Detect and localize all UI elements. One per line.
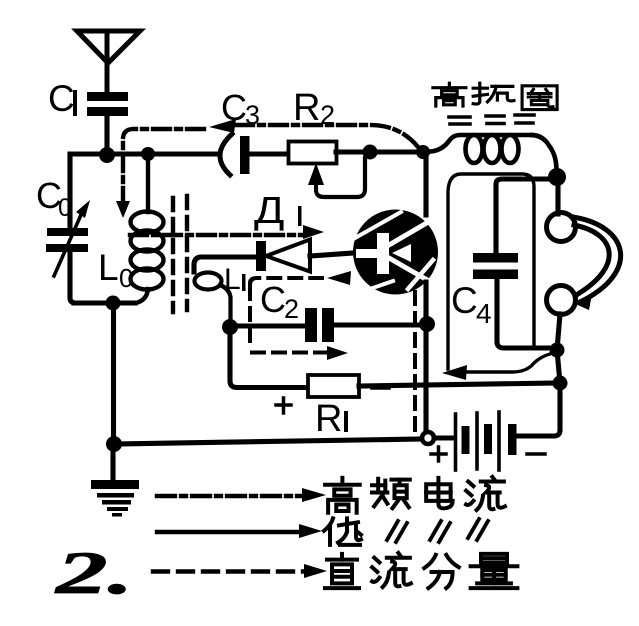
label C0 [36, 175, 72, 222]
C0 variable arrow [54, 208, 84, 276]
collector lead [423, 152, 428, 215]
transformer core [173, 196, 187, 312]
legend dash-dot line [157, 494, 302, 498]
svg-text:C: C [260, 279, 286, 320]
capacitor C3 (curved plate) [220, 134, 232, 175]
wire left branch lower [70, 252, 76, 303]
emitter white diagonal [389, 258, 429, 281]
figure number 2. [54, 540, 134, 606]
wire R1 right to battery minus rail [359, 383, 557, 386]
label R1 [315, 398, 348, 440]
svg-text:R: R [315, 398, 342, 440]
capacitor C1 [87, 92, 128, 116]
svg-text:0: 0 [58, 194, 72, 222]
label L0 [98, 247, 133, 293]
node (ground junction) [106, 436, 122, 452]
collector white diagonal [389, 221, 430, 245]
svg-text:L: L [224, 263, 241, 296]
node (battery minus junction) [553, 376, 568, 391]
svg-text:2: 2 [284, 294, 299, 324]
svg-text:C: C [221, 87, 247, 128]
resistor R1 [308, 375, 359, 397]
node (junction antenna/tank) [99, 147, 115, 163]
minus sign (battery) [527, 452, 545, 456]
label D [254, 188, 302, 231]
wire earpiece to bottom node [557, 314, 560, 350]
diode D (cathode bar) [256, 241, 266, 271]
wire tank bottom [74, 300, 135, 305]
node (L1 bottom) [222, 319, 238, 335]
svg-text:Д: Д [254, 188, 284, 231]
svg-text:2.: 2. [54, 540, 134, 606]
HF dash-dot arrow left (top) [209, 119, 236, 133]
headband arcs [573, 217, 621, 302]
node (collector junction) [416, 145, 430, 159]
svg-text:C: C [48, 78, 75, 119]
wire C2 to emitter node [334, 322, 421, 327]
wire C3 to R2 [249, 152, 289, 154]
capacitor C0 plates [46, 228, 88, 252]
white slash bottom-left [367, 281, 393, 290]
label R2 [293, 87, 335, 130]
+ sign (battery) [431, 447, 446, 461]
wire node to C2 [234, 323, 305, 328]
emitter white arrowhead [392, 244, 411, 262]
inductor L0 [131, 154, 164, 303]
wire down to ground rail [111, 303, 116, 444]
label L1 [224, 263, 246, 296]
R2 wiper wire loop [316, 158, 365, 197]
wire diode to base [310, 253, 353, 256]
base bar (white) [377, 233, 389, 274]
legend text 低 [324, 518, 361, 545]
label C4 [451, 280, 492, 329]
wire node to battery [434, 435, 452, 440]
wire left branch upper [67, 154, 72, 229]
antenna [77, 31, 140, 92]
ground [91, 444, 139, 517]
earpiece top [547, 213, 576, 242]
inductor L1 [195, 273, 222, 290]
base lead white gap [356, 249, 377, 258]
node (emitter / C2 right) [419, 316, 435, 332]
battery + terminal node (open) [422, 432, 434, 444]
capacitor C4 [473, 253, 518, 279]
node (R2 right) [363, 145, 378, 160]
wire top rail [70, 151, 216, 156]
C4 bottom lead [497, 279, 550, 348]
wire L1-node down to R1 [230, 334, 308, 388]
ditto marks [387, 519, 488, 542]
legend text 高频电流 [325, 477, 505, 513]
wire bottom rail to battery + [114, 439, 421, 444]
resistor R2 (potentiometer) [289, 142, 337, 164]
legend text 直流分量 [325, 553, 517, 588]
dashed bottom run [252, 351, 328, 355]
svg-text:2: 2 [320, 100, 335, 130]
node (tank bottom) [106, 296, 121, 311]
emitter lead [423, 282, 428, 434]
dashed vertical near emitter [413, 292, 417, 430]
svg-text:3: 3 [245, 100, 260, 130]
C4 top lead [496, 179, 550, 253]
choke coil [427, 135, 557, 174]
svg-text:C: C [451, 280, 478, 321]
wire C1 to node [104, 116, 109, 154]
wire node to earpiece [555, 177, 560, 214]
label C3 [221, 87, 260, 130]
HF dash-dot arrow (middle, into base) [130, 233, 305, 237]
dashed arrow left (top) [327, 271, 351, 285]
wire down right side [557, 350, 560, 383]
label C2 [260, 279, 299, 324]
legend solid line [157, 530, 302, 534]
choke core dashes [449, 115, 534, 124]
minus sign (R1 right) [372, 386, 389, 390]
label C1 [48, 78, 77, 119]
legend dashed line [153, 569, 305, 573]
svg-text:R: R [293, 87, 320, 129]
battery cells [456, 412, 517, 470]
diode D (triangle) [266, 240, 310, 272]
AF arrow from headphone node [452, 353, 553, 372]
svg-text:L: L [98, 247, 119, 288]
earpiece bottom [547, 286, 576, 315]
label choke 高扼圈 [433, 83, 557, 109]
+ sign (R1 left) [276, 398, 291, 413]
svg-text:0: 0 [119, 263, 133, 293]
white slash bottom-right [408, 260, 433, 289]
wire R2 to node [336, 149, 423, 154]
AF loop rectangle [448, 174, 553, 372]
svg-text:4: 4 [476, 298, 492, 329]
node (L0 top) [141, 147, 155, 161]
capacitor C2 [305, 308, 334, 342]
R2 wiper arrow [308, 163, 324, 185]
dashed arrow right (bottom) [327, 346, 348, 360]
dashed top run [250, 278, 322, 283]
transistor (black disc) [353, 210, 438, 295]
wire L1 top to diode [194, 257, 257, 272]
node (headphone top) [548, 168, 566, 186]
white slash top-left [355, 212, 401, 238]
dashed left vertical [248, 287, 252, 344]
HF arrow down into L0 [116, 201, 130, 218]
node (headphone bottom) [550, 343, 565, 358]
